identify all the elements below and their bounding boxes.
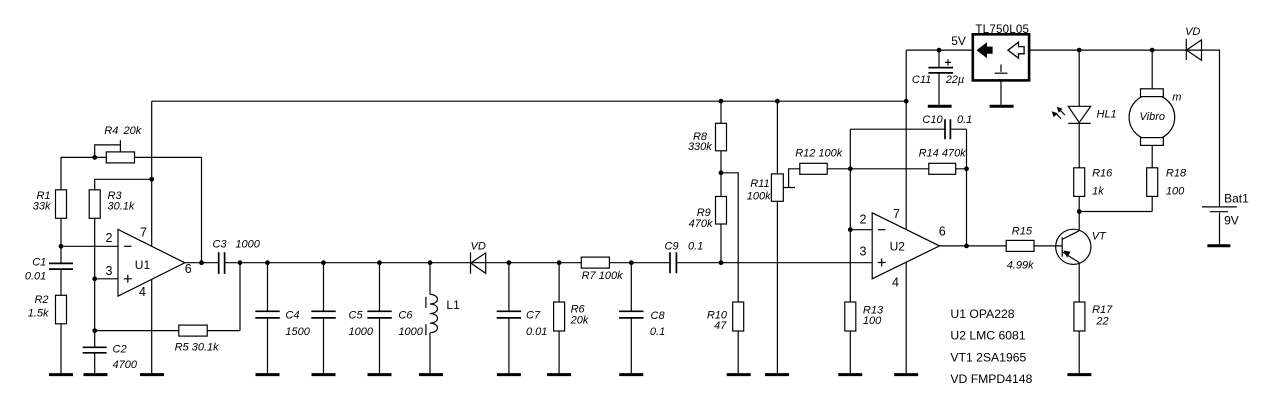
svg-text:47: 47 [714,320,727,332]
svg-text:0.1: 0.1 [650,326,665,338]
svg-text:C11: C11 [912,74,931,86]
svg-text:C3: C3 [213,239,228,251]
svg-text:4: 4 [892,276,899,290]
svg-text:1000: 1000 [349,326,374,338]
svg-text:U1: U1 [135,258,151,272]
svg-text:Bat1: Bat1 [1224,191,1249,205]
svg-text:Vibro: Vibro [1140,111,1165,123]
svg-text:20k: 20k [123,125,142,137]
svg-text:C8: C8 [651,310,666,322]
svg-text:C2: C2 [113,344,127,356]
svg-text:VD: VD [471,241,486,253]
svg-text:4700: 4700 [113,359,138,371]
svg-text:470k: 470k [689,218,713,230]
svg-text:HL1: HL1 [1097,108,1117,120]
svg-text:2: 2 [106,231,113,245]
svg-text:m: m [1172,92,1181,104]
svg-text:3: 3 [860,244,867,258]
svg-text:C4: C4 [285,309,299,321]
svg-text:R17: R17 [1092,304,1113,316]
svg-text:C9: C9 [665,241,679,253]
svg-text:4: 4 [139,285,146,299]
svg-text:0.01: 0.01 [526,326,547,338]
svg-text:0.1: 0.1 [957,114,972,126]
svg-text:1000: 1000 [235,239,260,251]
svg-text:100: 100 [1166,186,1185,198]
svg-text:4.99k: 4.99k [1007,260,1034,272]
svg-text:R2: R2 [34,294,48,306]
svg-text:0.01: 0.01 [25,270,46,282]
svg-text:1k: 1k [1092,186,1104,198]
svg-text:U2 LMC 6081: U2 LMC 6081 [950,329,1025,343]
svg-text:R12 100k: R12 100k [795,148,843,160]
svg-text:C7: C7 [526,309,541,321]
svg-text:20k: 20k [570,314,589,326]
svg-text:TL750L05: TL750L05 [975,23,1029,36]
svg-text:R15: R15 [1012,226,1033,238]
svg-text:6: 6 [939,225,946,239]
svg-text:22: 22 [1095,316,1108,328]
svg-text:C10: C10 [922,114,943,126]
svg-text:3: 3 [106,264,113,278]
svg-text:R5 30.1k: R5 30.1k [175,341,220,353]
svg-text:100k: 100k [747,191,771,203]
svg-text:C6: C6 [398,309,413,321]
svg-text:L1: L1 [446,298,460,312]
svg-text:330k: 330k [688,141,712,153]
svg-text:7: 7 [140,226,147,240]
svg-text:33k: 33k [33,201,51,213]
svg-text:R14 470k: R14 470k [919,147,967,159]
svg-text:VT1 2SA1965: VT1 2SA1965 [950,351,1026,365]
svg-text:VD: VD [1185,26,1200,38]
svg-text:100: 100 [863,315,882,327]
svg-text:5V: 5V [951,34,966,48]
svg-text:1500: 1500 [285,326,310,338]
svg-text:R9: R9 [697,207,711,219]
svg-text:30.1k: 30.1k [108,201,135,213]
svg-text:0.1: 0.1 [688,241,703,253]
svg-text:C1: C1 [32,257,46,269]
svg-text:R7 100k: R7 100k [582,270,623,282]
svg-text:1000: 1000 [398,326,423,338]
svg-text:2: 2 [860,213,867,227]
svg-text:U1 OPA228: U1 OPA228 [950,307,1014,321]
svg-text:22µ: 22µ [945,74,965,86]
svg-text:VT: VT [1092,231,1107,243]
svg-text:1.5k: 1.5k [28,308,49,320]
svg-text:C5: C5 [349,309,364,321]
svg-text:R16: R16 [1092,167,1113,179]
svg-text:6: 6 [185,262,192,276]
svg-text:7: 7 [893,207,900,221]
svg-text:U2: U2 [890,239,906,253]
svg-text:R4: R4 [104,125,118,137]
svg-text:R11: R11 [750,178,769,190]
svg-text:R18: R18 [1166,167,1187,179]
svg-text:VD FMPD4148: VD FMPD4148 [950,372,1032,386]
svg-text:9V: 9V [1224,213,1239,227]
